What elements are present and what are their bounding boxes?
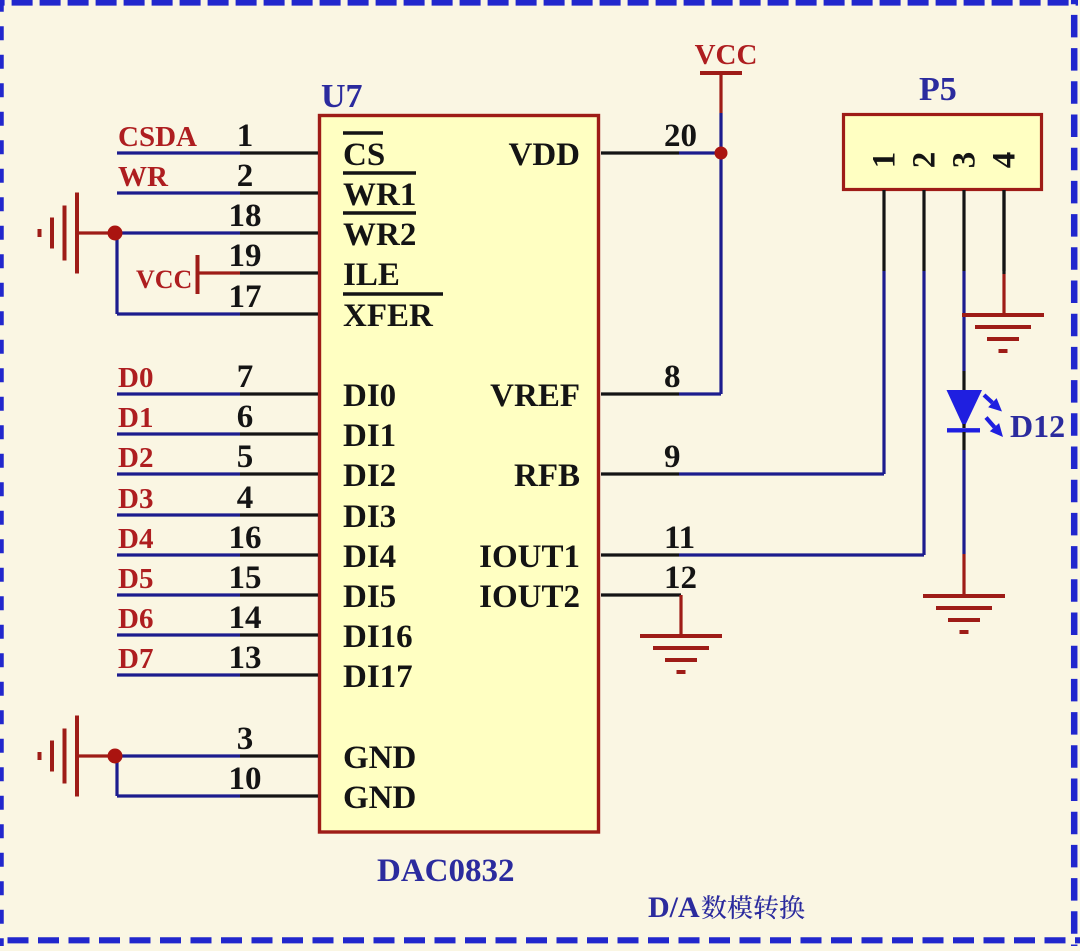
svg-text:5: 5 bbox=[237, 439, 254, 475]
svg-text:20: 20 bbox=[664, 118, 697, 154]
svg-text:D7: D7 bbox=[118, 643, 153, 675]
svg-text:D5: D5 bbox=[118, 563, 153, 595]
svg-text:7: 7 bbox=[237, 359, 254, 395]
svg-text:4: 4 bbox=[237, 480, 254, 516]
svg-text:DAC0832: DAC0832 bbox=[377, 853, 515, 889]
svg-text:D6: D6 bbox=[118, 603, 153, 635]
svg-text:IOUT1: IOUT1 bbox=[479, 539, 580, 575]
svg-text:DI4: DI4 bbox=[343, 539, 396, 575]
svg-text:GND: GND bbox=[343, 740, 416, 776]
svg-text:XFER: XFER bbox=[343, 298, 434, 334]
svg-text:10: 10 bbox=[229, 761, 262, 797]
svg-text:CS: CS bbox=[343, 137, 385, 173]
svg-text:RFB: RFB bbox=[514, 458, 580, 494]
svg-text:WR: WR bbox=[118, 161, 169, 193]
svg-text:1: 1 bbox=[867, 152, 903, 169]
svg-text:18: 18 bbox=[229, 198, 262, 234]
svg-text:1: 1 bbox=[237, 118, 254, 154]
svg-text:WR2: WR2 bbox=[343, 217, 416, 253]
svg-text:GND: GND bbox=[343, 780, 416, 816]
svg-text:12: 12 bbox=[664, 560, 697, 596]
svg-text:VDD: VDD bbox=[509, 137, 581, 173]
svg-text:15: 15 bbox=[229, 560, 262, 596]
svg-text:3: 3 bbox=[237, 721, 254, 757]
svg-text:D0: D0 bbox=[118, 362, 153, 394]
svg-text:13: 13 bbox=[229, 640, 262, 676]
svg-text:2: 2 bbox=[237, 158, 254, 194]
svg-text:VCC: VCC bbox=[136, 265, 192, 294]
svg-text:D2: D2 bbox=[118, 442, 153, 474]
svg-text:2: 2 bbox=[907, 152, 943, 169]
svg-text:DI17: DI17 bbox=[343, 659, 413, 695]
svg-text:D/A: D/A bbox=[648, 891, 700, 924]
svg-text:VREF: VREF bbox=[490, 378, 580, 414]
svg-text:DI3: DI3 bbox=[343, 499, 396, 535]
svg-text:6: 6 bbox=[237, 399, 254, 435]
svg-text:P5: P5 bbox=[919, 71, 957, 108]
svg-text:D1: D1 bbox=[118, 402, 153, 434]
svg-text:DI1: DI1 bbox=[343, 418, 396, 454]
svg-text:19: 19 bbox=[229, 238, 262, 274]
svg-text:14: 14 bbox=[229, 600, 262, 636]
svg-text:DI16: DI16 bbox=[343, 619, 413, 655]
svg-text:DI0: DI0 bbox=[343, 378, 396, 414]
svg-text:4: 4 bbox=[987, 152, 1023, 169]
svg-text:9: 9 bbox=[664, 439, 681, 475]
svg-text:8: 8 bbox=[664, 359, 681, 395]
svg-text:CSDA: CSDA bbox=[118, 121, 197, 153]
svg-text:D12: D12 bbox=[1010, 408, 1065, 444]
svg-text:11: 11 bbox=[664, 520, 695, 556]
svg-text:ILE: ILE bbox=[343, 257, 400, 293]
svg-text:IOUT2: IOUT2 bbox=[479, 579, 580, 615]
svg-text:DI2: DI2 bbox=[343, 458, 396, 494]
svg-text:D4: D4 bbox=[118, 523, 153, 555]
svg-text:16: 16 bbox=[229, 520, 262, 556]
svg-text:17: 17 bbox=[229, 279, 262, 315]
svg-text:U7: U7 bbox=[321, 78, 363, 115]
svg-text:WR1: WR1 bbox=[343, 177, 416, 213]
svg-text:D3: D3 bbox=[118, 483, 153, 515]
svg-text:DI5: DI5 bbox=[343, 579, 396, 615]
svg-text:VCC: VCC bbox=[695, 39, 758, 71]
svg-text:3: 3 bbox=[947, 152, 983, 169]
